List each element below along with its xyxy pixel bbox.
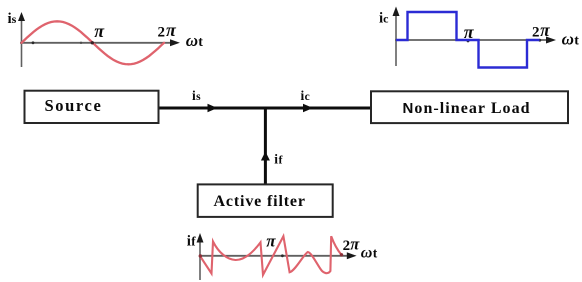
wire: source to load (main horizontal)	[158, 107, 370, 110]
svg-text:2π: 2π	[532, 20, 550, 41]
svg-text:t: t	[198, 35, 203, 50]
x-axis arrowhead	[347, 252, 357, 259]
svg-text:ic: ic	[301, 88, 310, 103]
arrowhead if (current up from filter)	[261, 152, 270, 161]
y-axis arrowhead	[197, 233, 204, 243]
node: 2pi dot	[340, 253, 343, 256]
x-axis of is graph	[20, 42, 172, 44]
y-axis arrowhead	[18, 12, 25, 21]
block diagram	[25, 88, 569, 217]
svg-text:t: t	[373, 245, 378, 260]
graph: filter compensation current waveform (bottom)	[187, 231, 378, 280]
arrowhead is (current into junction)	[208, 104, 218, 112]
svg-text:ω: ω	[186, 31, 198, 50]
block: Source	[25, 91, 159, 123]
svg-text:π: π	[266, 231, 276, 250]
svg-text:Non-linear Load: Non-linear Load	[403, 100, 531, 117]
y-axis of is graph	[21, 16, 23, 67]
svg-text:2π: 2π	[158, 20, 178, 41]
svg-text:π: π	[94, 21, 105, 41]
y-axis of ic graph	[395, 11, 397, 66]
svg-text:π: π	[464, 22, 475, 42]
svg-text:Active filter: Active filter	[214, 193, 306, 210]
svg-text:ω: ω	[361, 244, 373, 261]
graph: load current waveform (top-right)	[379, 7, 579, 68]
axis tick dot after pi	[467, 40, 470, 43]
svg-text:ω: ω	[562, 29, 574, 48]
node: pi crossing dot	[91, 41, 94, 44]
svg-text:is: is	[8, 11, 17, 27]
y-axis arrowhead	[393, 7, 400, 17]
svg-text:is: is	[192, 88, 201, 103]
svg-text:Source: Source	[45, 96, 103, 115]
block: Non-linear Load	[371, 91, 568, 123]
svg-text:t: t	[574, 33, 579, 48]
x-axis of ic graph	[395, 39, 548, 41]
svg-text:2π: 2π	[343, 234, 361, 254]
axis tick dot 2	[80, 42, 82, 44]
x-axis of if graph	[199, 255, 349, 257]
block: Active filter	[198, 184, 333, 217]
graph: source current waveform (top-left)	[8, 11, 204, 67]
x-axis arrowhead	[546, 37, 556, 44]
axis tick dot at 2pi	[538, 39, 541, 42]
arrowhead ic (current into load)	[303, 104, 313, 112]
wire: junction down to active filter	[264, 107, 267, 184]
svg-text:if: if	[187, 233, 196, 249]
compensation current waveform if	[200, 236, 342, 275]
axis dot near pi	[281, 254, 284, 257]
axis tick dot 1	[32, 41, 35, 44]
square wave ic	[396, 12, 540, 68]
svg-text:if: if	[274, 152, 283, 167]
svg-text:ic: ic	[379, 11, 389, 27]
y-axis of if graph	[199, 237, 201, 280]
sine curve is	[22, 21, 165, 64]
node: origin dot	[199, 254, 202, 257]
x-axis arrowhead	[170, 39, 180, 46]
